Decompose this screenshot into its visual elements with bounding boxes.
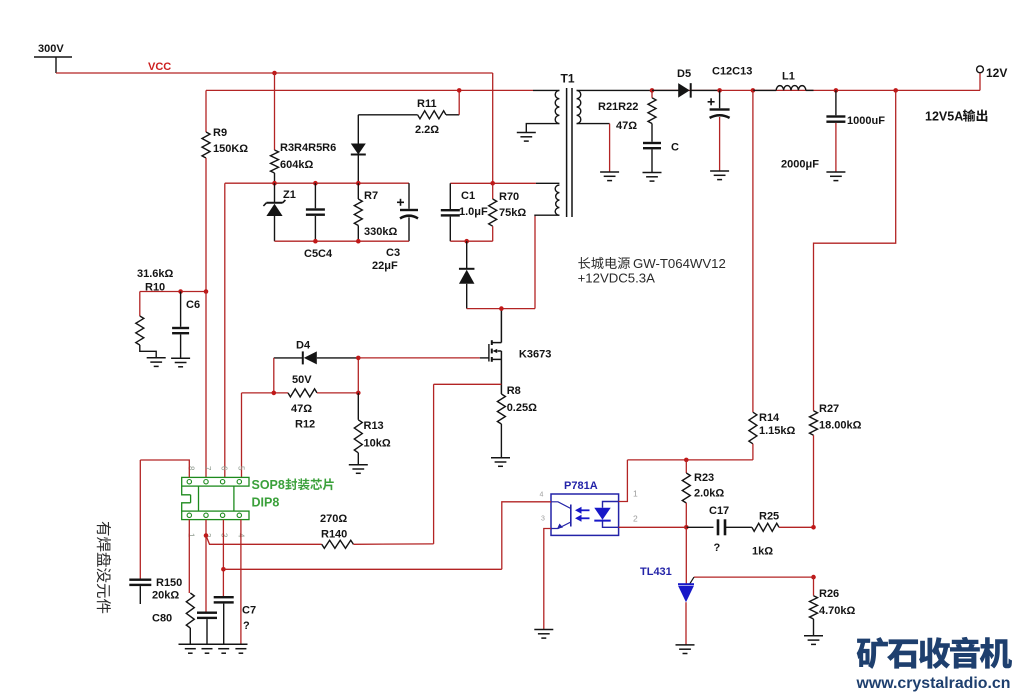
svg-text:75kΩ: 75kΩ — [499, 207, 526, 219]
junction pin3 row — [221, 567, 226, 572]
ground R13 — [349, 465, 368, 474]
inductor L1 — [753, 71, 814, 91]
svg-text:C1: C1 — [461, 190, 475, 202]
ground C2 — [643, 173, 662, 182]
svg-text:31.6kΩ: 31.6kΩ — [137, 268, 174, 280]
wire R140 to source — [353, 543, 433, 545]
capacitor C80 — [152, 612, 217, 645]
zener Z1 — [263, 183, 295, 241]
resistor R8 — [497, 385, 537, 458]
ground C12C13 — [710, 171, 729, 180]
junction gate node — [356, 356, 361, 361]
ground R8 — [491, 458, 510, 467]
svg-text:1kΩ: 1kΩ — [752, 545, 773, 557]
wire output rail — [577, 89, 980, 91]
ground opto emitter — [534, 630, 553, 639]
junction R12/D4 — [272, 391, 277, 396]
wire pin7 column — [205, 292, 207, 478]
ground C1000uF — [826, 172, 845, 181]
wire opto pin2 row — [619, 526, 687, 528]
wire R3 to zener rail — [274, 173, 276, 183]
capacitor C3 — [372, 183, 418, 272]
svg-text:TL431: TL431 — [640, 566, 672, 578]
node 300V input terminal — [34, 43, 72, 73]
svg-text:604kΩ: 604kΩ — [280, 159, 313, 171]
svg-text:1000uF: 1000uF — [847, 115, 885, 127]
transformer T1 secondary winding — [577, 90, 581, 123]
wire R9 to R10 node — [205, 158, 207, 292]
svg-text:3: 3 — [541, 516, 545, 523]
wire pin3 drop — [222, 520, 224, 596]
svg-text:20kΩ: 20kΩ — [152, 590, 179, 602]
capacitor C12C13 — [708, 66, 820, 171]
junction rail/R21R22 — [650, 88, 655, 93]
wire pin6 column — [224, 183, 226, 477]
junction R23/C17 row — [684, 525, 689, 530]
svg-text:2.0kΩ: 2.0kΩ — [694, 488, 724, 500]
junction R25/R27 — [811, 525, 816, 530]
resistor R10 — [136, 268, 174, 358]
ground bus bottom — [179, 644, 248, 653]
wire secondary bottom lead — [577, 124, 610, 172]
svg-text:18.00kΩ: 18.00kΩ — [819, 420, 862, 432]
svg-text:150KΩ: 150KΩ — [213, 143, 248, 155]
transformer T1 label — [561, 72, 575, 86]
transformer T1 core — [567, 88, 572, 217]
wire snubber rail — [450, 182, 559, 184]
wire opto collector feed — [502, 502, 551, 570]
svg-text:R9: R9 — [213, 127, 227, 139]
svg-text:R23: R23 — [694, 472, 714, 484]
svg-text:R13: R13 — [364, 420, 384, 432]
resistor R70 — [489, 183, 527, 241]
capacitor C-noplace — [129, 579, 151, 605]
svg-text:R14: R14 — [759, 412, 780, 424]
svg-text:C12C13: C12C13 — [712, 66, 752, 78]
junction rail/sense — [893, 88, 898, 93]
wire NC cap drop — [139, 460, 141, 579]
wire R140 row — [206, 536, 322, 545]
junction R10 row/R9 — [204, 289, 209, 294]
svg-text:47Ω: 47Ω — [291, 403, 312, 415]
svg-text:4: 4 — [540, 492, 544, 499]
ground R10 — [147, 358, 166, 367]
svg-text:C6: C6 — [186, 299, 200, 311]
svg-text:Z1: Z1 — [283, 189, 296, 201]
wire source row — [434, 383, 502, 385]
svg-text:T1: T1 — [561, 72, 575, 86]
svg-text:8: 8 — [186, 466, 195, 471]
wire feedback drop — [752, 90, 754, 412]
diode D5 — [652, 68, 720, 98]
wire R11 riser — [458, 90, 460, 114]
junction pin2/R140 — [204, 533, 209, 538]
wire zener rail bottom — [275, 240, 410, 242]
wire TL431 cathode drop — [685, 527, 687, 584]
svg-text:5: 5 — [236, 466, 245, 471]
wire drain row — [467, 308, 535, 310]
capacitor C17 — [686, 505, 752, 554]
svg-text:C7: C7 — [242, 605, 256, 617]
svg-text:D5: D5 — [677, 68, 691, 80]
junction R26 top row — [811, 575, 816, 580]
diode D4 — [274, 340, 359, 386]
resistor R23 — [682, 460, 724, 527]
svg-text:R21R22: R21R22 — [598, 101, 638, 113]
junction rail/C5C4 — [313, 181, 318, 186]
junction drain — [499, 306, 504, 311]
wire zener rail top — [225, 182, 409, 184]
svg-text:K3673: K3673 — [519, 348, 551, 360]
svg-text:330kΩ: 330kΩ — [364, 226, 397, 238]
svg-text:47Ω: 47Ω — [616, 120, 637, 132]
svg-text:R27: R27 — [819, 403, 839, 415]
optocoupler U2 P781A — [540, 480, 639, 535]
resistor R26 — [810, 577, 856, 636]
svg-text:R12: R12 — [295, 419, 315, 431]
ground T1 primary — [517, 133, 536, 142]
IC U1 DIP8 footprint — [182, 477, 249, 519]
svg-text:?: ? — [714, 542, 721, 554]
wire source drop — [433, 384, 435, 544]
svg-text:22μF: 22μF — [372, 260, 398, 272]
svg-text:?: ? — [243, 620, 250, 632]
svg-text:10kΩ: 10kΩ — [364, 437, 391, 449]
junction snubber/VCC — [490, 181, 495, 186]
diode D2 — [351, 115, 366, 183]
wire pin2 drop — [205, 520, 207, 612]
svg-text:50V: 50V — [292, 374, 312, 386]
label no component note — [97, 522, 111, 614]
svg-text:2: 2 — [633, 514, 638, 524]
junction rail/R11 — [457, 88, 462, 93]
svg-text:C: C — [671, 142, 679, 154]
svg-text:R140: R140 — [321, 529, 347, 541]
svg-text:6: 6 — [220, 466, 229, 471]
logo crystalradio — [857, 637, 1012, 669]
svg-text:2.2Ω: 2.2Ω — [415, 124, 439, 136]
ground C6 — [171, 358, 190, 367]
IC U1 pin numbers — [186, 466, 245, 538]
svg-text:C17: C17 — [709, 505, 729, 517]
ground TL431 — [676, 645, 695, 654]
wire R10 row — [140, 291, 206, 293]
svg-text:VCC: VCC — [148, 61, 171, 73]
svg-text:R7: R7 — [364, 190, 378, 202]
svg-text:0.25Ω: 0.25Ω — [507, 402, 537, 414]
wire D4-R12 tie — [357, 358, 359, 393]
svg-text:R8: R8 — [507, 385, 521, 397]
svg-text:C3: C3 — [386, 247, 400, 259]
wire snubber bottom — [450, 240, 492, 242]
svg-text:300V: 300V — [38, 43, 64, 55]
junction rail/feedback — [751, 88, 756, 93]
wire opto pin1 jog — [619, 460, 628, 502]
svg-text:www.crystalradio.cn: www.crystalradio.cn — [856, 675, 1011, 692]
resistor R7 — [354, 183, 397, 241]
junction rail/C1000 — [834, 88, 839, 93]
svg-text:R10: R10 — [145, 282, 165, 294]
resistor R14 — [749, 412, 796, 460]
label power supply model — [578, 256, 726, 286]
svg-text:1.0μF: 1.0μF — [459, 206, 488, 218]
wire TL431 ref row — [690, 577, 814, 584]
ground T1 secondary — [600, 172, 619, 181]
svg-text:R25: R25 — [759, 510, 779, 522]
svg-text:R150: R150 — [156, 577, 182, 589]
wire opto row — [627, 459, 753, 461]
svg-text:GW-T064WV12: GW-T064WV12 — [633, 256, 726, 271]
junction rail/Z1 — [272, 181, 277, 186]
svg-text:P781A: P781A — [564, 480, 598, 492]
svg-text:2000μF: 2000μF — [781, 159, 819, 171]
ground R26 — [804, 636, 823, 645]
resistor R150 — [152, 577, 194, 644]
svg-text:1: 1 — [633, 489, 638, 499]
shunt regulator TL431 — [640, 566, 694, 602]
resistor R25 — [752, 510, 814, 557]
resistor R140 — [320, 513, 353, 548]
wire VCC rail — [56, 72, 493, 74]
junction rail/R7 — [356, 181, 361, 186]
svg-text:4.70kΩ: 4.70kΩ — [819, 605, 856, 617]
svg-text:C5C4: C5C4 — [304, 248, 333, 260]
svg-text:7: 7 — [203, 466, 212, 471]
resistor R27 — [810, 403, 862, 527]
capacitor C7 — [214, 596, 256, 644]
wire pin4 drop — [240, 520, 242, 645]
svg-text:+12VDC5.3A: +12VDC5.3A — [578, 271, 656, 286]
wire TL431 anode — [685, 602, 687, 645]
svg-text:1.15kΩ: 1.15kΩ — [759, 425, 796, 437]
resistor R9 — [202, 90, 248, 158]
junction bottom/C5C4 — [313, 239, 318, 244]
capacitor C6 — [172, 292, 200, 359]
resistor R3R4R5R6 — [271, 73, 337, 173]
wire opto emitter drop — [544, 529, 551, 630]
svg-text:R70: R70 — [499, 191, 519, 203]
svg-text:DIP8: DIP8 — [252, 496, 280, 510]
wire primary bottom lead — [526, 124, 559, 133]
capacitor C5C4 — [304, 183, 333, 260]
svg-text:R3R4R5R6: R3R4R5R6 — [280, 142, 336, 154]
svg-text:12V: 12V — [986, 66, 1007, 80]
wire sense jog — [814, 90, 896, 410]
transformer T1 aux winding — [555, 185, 559, 215]
svg-text:1: 1 — [186, 533, 195, 538]
net label VCC — [148, 61, 171, 73]
svg-text:3: 3 — [220, 533, 229, 538]
resistor R21R22 — [598, 90, 656, 141]
wire pin3 long row — [223, 568, 501, 570]
logo url — [856, 675, 1011, 692]
wire D4 left drop — [273, 358, 275, 393]
transistor Q1 K3673 — [489, 309, 551, 394]
resistor R13 — [354, 393, 391, 465]
label SOP8 package — [252, 478, 334, 492]
svg-text:R26: R26 — [819, 588, 839, 600]
svg-text:R11: R11 — [417, 98, 437, 110]
svg-text:270Ω: 270Ω — [320, 513, 347, 525]
junction VCC/R3 — [272, 71, 277, 76]
wire pin5 column — [241, 393, 243, 478]
node 12V output terminal — [977, 66, 1008, 91]
wire gate row — [358, 357, 489, 359]
junction R12/R13 — [356, 391, 361, 396]
junction R23 top — [684, 458, 689, 463]
junction snubber bottom/diode — [464, 239, 469, 244]
svg-text:C80: C80 — [152, 612, 172, 624]
wire aux rail — [206, 89, 559, 91]
svg-text:SOP8: SOP8 — [252, 478, 285, 492]
wire aux winding drop — [534, 216, 536, 308]
svg-text:D4: D4 — [296, 340, 311, 352]
wire VCC drop to snubber rail — [492, 73, 494, 183]
capacitor C1000uF — [826, 90, 885, 172]
resistor R12 — [242, 389, 359, 431]
resistor R11 — [358, 98, 459, 136]
wire aux bottom lead — [535, 215, 559, 216]
svg-text:12V5A: 12V5A — [925, 110, 963, 124]
junction bottom/R7 — [356, 239, 361, 244]
capacitor C1 — [441, 183, 488, 241]
junction R10 row/C6 — [178, 289, 183, 294]
svg-text:L1: L1 — [782, 71, 795, 83]
transformer T1 primary winding — [555, 90, 559, 123]
label 12V5A output — [925, 109, 987, 123]
capacitor C2 — [643, 142, 679, 173]
diode D3 — [459, 241, 475, 308]
wire pin8 row — [140, 460, 189, 477]
label DIP8 — [252, 496, 280, 510]
wire pin1 drop — [188, 520, 190, 593]
